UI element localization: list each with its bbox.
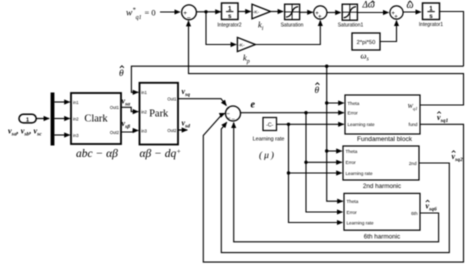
svg-text:Fundamental block: Fundamental block bbox=[357, 136, 413, 143]
wire source to demux bbox=[36, 118, 49, 120]
wire S3 to Integrator1, node omega-hat bbox=[403, 11, 421, 13]
wire theta to Fundamental Theta bbox=[327, 102, 344, 104]
svg-text:-K-: -K- bbox=[253, 9, 260, 15]
node theta-hat label (left) bbox=[119, 66, 124, 79]
node v_sq1-hat label bbox=[437, 112, 448, 125]
svg-text:Out1: Out1 bbox=[110, 105, 120, 110]
svg-text:αβ − dq+: αβ − dq+ bbox=[140, 147, 182, 160]
wire 2*pi*50 to S3 bottom bbox=[380, 21, 397, 42]
svg-text:Error: Error bbox=[348, 110, 359, 115]
wire S2 to Saturation1 bbox=[327, 12, 341, 14]
constant block Learning rate -C- bbox=[253, 118, 285, 162]
wire learning rate to 2nd harmonic bbox=[289, 172, 342, 174]
svg-text:−: − bbox=[231, 117, 235, 123]
svg-text:Park: Park bbox=[149, 109, 169, 120]
svg-text:in1: in1 bbox=[141, 90, 147, 95]
saturation block Saturation1 bbox=[338, 4, 364, 28]
wire demux to Clark in3 bbox=[54, 134, 69, 136]
svg-text:θ: θ bbox=[315, 86, 320, 96]
node v_sq2-hat label bbox=[452, 151, 463, 164]
block 6th harmonic bbox=[344, 193, 420, 240]
gain ki bbox=[252, 4, 271, 32]
wire ki to Saturation bbox=[271, 11, 284, 13]
node junction learning rate vertical bbox=[287, 123, 290, 126]
wire Clark Out2 to Park in3, node v_sbeta bbox=[121, 131, 138, 133]
wire demux to Clark in2 bbox=[54, 118, 69, 120]
block Clark abc-alphabeta bbox=[71, 93, 121, 160]
svg-text:Learning rate: Learning rate bbox=[346, 171, 374, 176]
node junction error vertical bbox=[304, 111, 307, 114]
svg-text:θ: θ bbox=[119, 69, 124, 79]
svg-text:2*pi*50: 2*pi*50 bbox=[357, 40, 376, 46]
svg-text:in2: in2 bbox=[141, 109, 147, 114]
svg-text:Out2: Out2 bbox=[110, 130, 120, 135]
wire Clark Out1 to Park in2, node v_salpha bbox=[121, 107, 138, 111]
svg-text:Theta: Theta bbox=[347, 199, 359, 204]
wire Park Out2 (v_sd) stub bbox=[178, 129, 187, 131]
wire fund output v_sq1-hat feedback to error sum bbox=[203, 113, 463, 262]
block 2nd harmonic bbox=[343, 146, 419, 190]
constant block 2*pi*50 bbox=[352, 33, 380, 63]
wire Saturation to sum S2 bbox=[300, 11, 313, 13]
svg-text:in2: in2 bbox=[73, 116, 79, 121]
svg-text:Saturation1: Saturation1 bbox=[338, 22, 364, 28]
wire Integrator1 output to right-side vertical (theta-hat net) bbox=[440, 12, 464, 67]
demux bar bbox=[51, 93, 55, 146]
wire branch to gain kp bbox=[206, 12, 236, 45]
wire theta-hat horizontal line A to Park in1 bbox=[131, 66, 463, 92]
wire Park Out1 (v_sq) to error sum bbox=[178, 99, 226, 106]
wire 2nd harmonic output v_sq2-hat feedback bbox=[221, 122, 449, 252]
node junction theta to 2nd harmonic Theta bbox=[325, 149, 328, 152]
wire W_q1 feedback line B to S1 bottom bbox=[189, 21, 464, 105]
svg-text:6th harmonic: 6th harmonic bbox=[364, 234, 400, 241]
wire learning rate vertical to lower blocks bbox=[289, 124, 343, 222]
svg-text:+: + bbox=[394, 14, 398, 20]
wire theta vertical to harmonic Theta inputs bbox=[327, 66, 343, 201]
svg-text:= 0: = 0 bbox=[145, 9, 156, 18]
svg-text:Error: Error bbox=[346, 160, 357, 165]
svg-text:Learning rate: Learning rate bbox=[253, 136, 285, 142]
node junction learning rate to 2nd harmonic bbox=[287, 171, 290, 174]
sum S1 bbox=[182, 5, 197, 22]
sum S3 bbox=[390, 6, 403, 20]
sum S4 error junction bbox=[226, 106, 241, 123]
node junction theta to Fundamental Theta bbox=[325, 101, 328, 104]
block Park alphabeta-dq bbox=[140, 83, 182, 160]
svg-text:fund: fund bbox=[409, 122, 418, 127]
svg-text:Theta: Theta bbox=[346, 149, 358, 154]
svg-text:Theta: Theta bbox=[348, 101, 360, 106]
sum S2 bbox=[314, 6, 327, 20]
svg-text:Integrator1: Integrator1 bbox=[419, 22, 443, 28]
wire Integrator2 to ki bbox=[238, 11, 251, 13]
wire S1 to Integrator2 bbox=[196, 11, 220, 13]
svg-text:1: 1 bbox=[26, 117, 29, 123]
svg-text:Out1: Out1 bbox=[167, 97, 177, 102]
wire demux to Clark in1 bbox=[54, 101, 69, 103]
gain kp bbox=[237, 37, 255, 65]
wire kp to S2 bottom bbox=[255, 21, 320, 45]
wire error vertical to lower Error inputs bbox=[306, 113, 343, 212]
node wref label w*_q1 = 0 bbox=[126, 7, 156, 22]
integrator block Integrator1 1/s bbox=[419, 3, 443, 28]
svg-text:+: + bbox=[318, 14, 322, 20]
node junction after S1 bbox=[204, 10, 207, 13]
wire error to 2nd harmonic Error bbox=[306, 161, 342, 163]
svg-text:Out2: Out2 bbox=[167, 128, 177, 133]
svg-text:Integrator2: Integrator2 bbox=[217, 22, 241, 28]
svg-text:e: e bbox=[251, 100, 256, 111]
svg-text:-K-: -K- bbox=[238, 42, 245, 48]
svg-text:Error: Error bbox=[347, 210, 358, 215]
svg-text:s: s bbox=[429, 13, 433, 20]
svg-text:−: − bbox=[227, 116, 231, 122]
wire error e to Fundamental Error input bbox=[241, 112, 344, 114]
svg-text:-C-: -C- bbox=[266, 122, 273, 128]
svg-text:in1: in1 bbox=[73, 100, 79, 105]
node v_sq6-hat label bbox=[426, 200, 437, 213]
svg-text:Saturation: Saturation bbox=[281, 22, 304, 28]
svg-text:( μ ): ( μ ) bbox=[259, 150, 274, 161]
wire learning rate to Fundamental input bbox=[277, 123, 344, 125]
svg-text:2nd: 2nd bbox=[409, 161, 417, 166]
saturation block Saturation bbox=[281, 4, 304, 28]
svg-text:Learning rate: Learning rate bbox=[347, 220, 375, 225]
svg-text:6th: 6th bbox=[411, 211, 418, 216]
node junction error to 2nd harmonic bbox=[304, 161, 307, 164]
wire theta to 2nd harmonic Theta bbox=[327, 150, 342, 152]
svg-text:Clark: Clark bbox=[84, 114, 108, 125]
integrator block Integrator2 1/s bbox=[217, 3, 241, 28]
wire 6th harmonic output v_sq6-hat feedback bbox=[234, 123, 439, 242]
source block input 1 bbox=[19, 114, 36, 123]
svg-text:abc − αβ: abc − αβ bbox=[76, 148, 118, 160]
svg-text:Learning rate: Learning rate bbox=[348, 122, 376, 127]
svg-text:s: s bbox=[228, 13, 232, 20]
svg-text:in3: in3 bbox=[73, 133, 79, 138]
wire wref to sum S1 bbox=[160, 11, 180, 13]
svg-text:−: − bbox=[187, 15, 191, 22]
svg-text:in3: in3 bbox=[141, 128, 147, 133]
svg-text:2nd harmonic: 2nd harmonic bbox=[363, 183, 401, 190]
node theta-hat label (right) bbox=[315, 83, 320, 96]
node junction theta vertical bbox=[325, 65, 328, 68]
block Fundamental bbox=[345, 95, 420, 143]
wire Saturation1 to sum S3, node Delta-omega-hat bbox=[357, 12, 388, 14]
